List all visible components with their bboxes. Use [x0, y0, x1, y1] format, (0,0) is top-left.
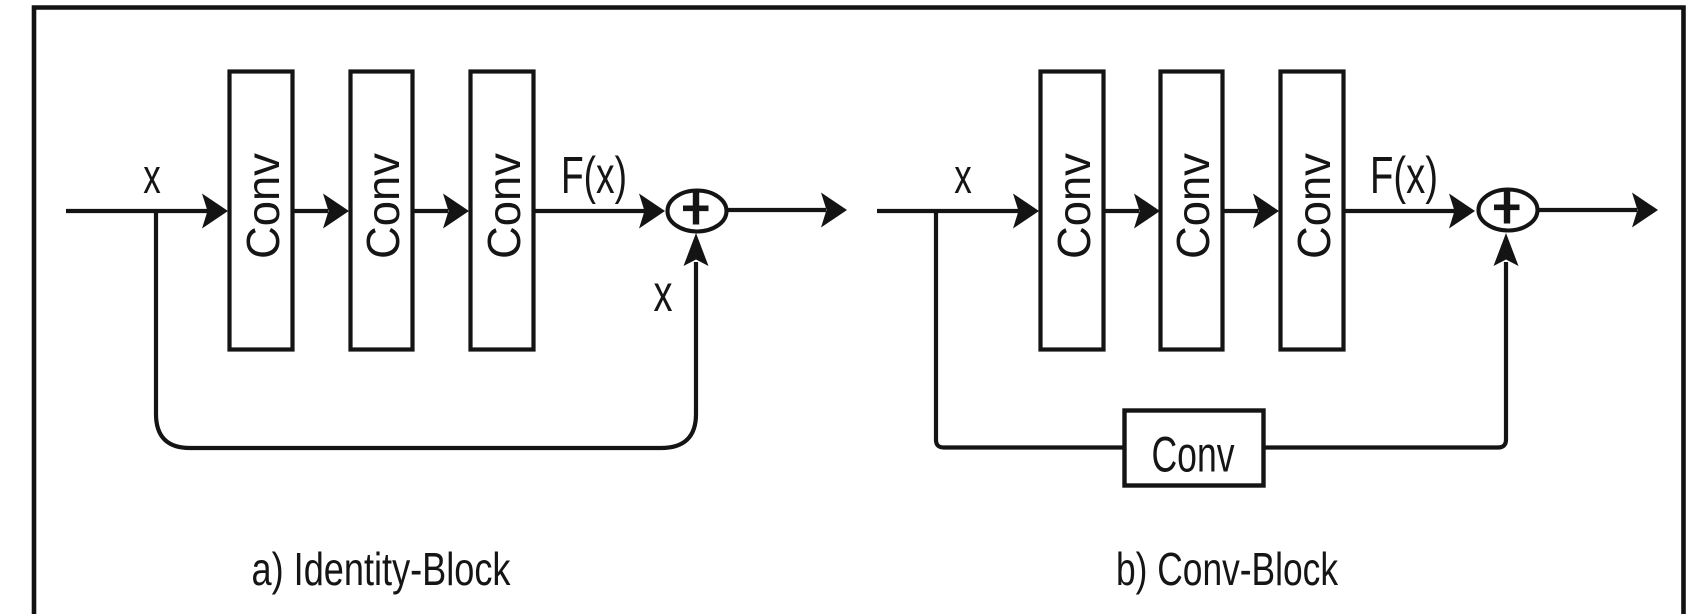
wire a conv1-conv2	[293, 209, 328, 213]
svg-text:F(x): F(x)	[1370, 147, 1438, 205]
conv box b3	[1281, 72, 1344, 350]
svg-text:Conv: Conv	[357, 153, 409, 259]
conv box b1	[1041, 72, 1104, 350]
adder a	[668, 191, 727, 232]
conv box a3	[471, 72, 534, 350]
wire b conv2-conv3	[1223, 209, 1258, 213]
wire b skip left	[936, 209, 1124, 448]
arrowhead b skip up	[1494, 233, 1519, 266]
conv box b2	[1161, 72, 1223, 350]
svg-text:x: x	[954, 150, 972, 204]
arrowhead a conv1-conv2	[323, 194, 349, 229]
svg-text:Conv: Conv	[478, 153, 530, 259]
wire a output	[726, 208, 826, 212]
wire a skip connection	[156, 209, 696, 448]
arrowhead b into adder	[1449, 194, 1475, 229]
svg-text:x: x	[654, 265, 673, 323]
svg-text:F(x): F(x)	[561, 147, 627, 205]
adder b	[1479, 190, 1538, 231]
conv box b skip	[1125, 411, 1264, 486]
wire a input	[66, 209, 209, 213]
wire b F(x)	[1344, 209, 1456, 213]
arrowhead a skip up	[684, 233, 709, 266]
arrowhead b conv2-conv3	[1253, 194, 1279, 229]
arrowhead b output	[1632, 193, 1658, 228]
arrowhead a into adder	[639, 194, 665, 229]
wire b output	[1537, 208, 1637, 212]
svg-text:Conv: Conv	[1167, 153, 1219, 259]
svg-text:b) Conv-Block: b) Conv-Block	[1116, 543, 1339, 595]
arrowhead b input	[1013, 194, 1039, 229]
wire b conv1-conv2	[1104, 209, 1139, 213]
svg-text:Conv: Conv	[237, 153, 289, 259]
wire a conv2-conv3	[413, 209, 448, 213]
svg-text:a) Identity-Block: a) Identity-Block	[252, 543, 512, 595]
svg-text:Conv: Conv	[1048, 153, 1100, 259]
wire b skip right	[1264, 262, 1506, 448]
arrowhead a output	[821, 193, 847, 228]
svg-text:x: x	[143, 150, 161, 204]
wire a F(x)	[534, 209, 646, 213]
arrowhead a conv2-conv3	[443, 194, 469, 229]
arrowhead a input	[202, 194, 228, 229]
arrowhead b conv1-conv2	[1134, 194, 1160, 229]
conv box a2	[351, 72, 413, 350]
svg-text:Conv: Conv	[1152, 427, 1235, 483]
svg-text:Conv: Conv	[1288, 153, 1340, 259]
conv box a1	[230, 72, 293, 350]
wire b input	[877, 209, 1020, 213]
